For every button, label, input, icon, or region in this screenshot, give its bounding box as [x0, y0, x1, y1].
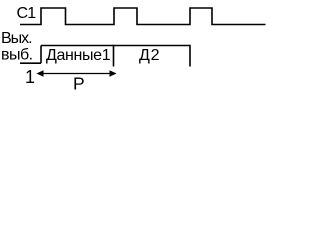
right arrowhead: [110, 70, 117, 77]
wire: data bus rising transition at first clock edge: [40, 46, 42, 64]
svg-text:C1: C1: [17, 5, 37, 22]
svg-text:Данные1: Данные1: [46, 47, 111, 64]
wire: period measurement double arrow: [38, 73, 116, 75]
svg-text:выб.: выб.: [1, 47, 33, 64]
svg-text:Р: Р: [73, 74, 85, 94]
svg-text:Вых.: Вых.: [1, 30, 32, 47]
wire: data bus high line: [41, 45, 190, 47]
wire: data bus falling end transition: [189, 45, 191, 67]
svg-text:1: 1: [25, 67, 35, 87]
svg-text:Д2: Д2: [139, 47, 160, 64]
wire: clock C1 waveform (3 pulses): [20, 8, 266, 25]
left arrowhead: [37, 70, 44, 77]
wire: cell divider between Данные1 and Д2: [113, 45, 115, 67]
wire: data bus low line before first edge: [20, 62, 41, 64]
